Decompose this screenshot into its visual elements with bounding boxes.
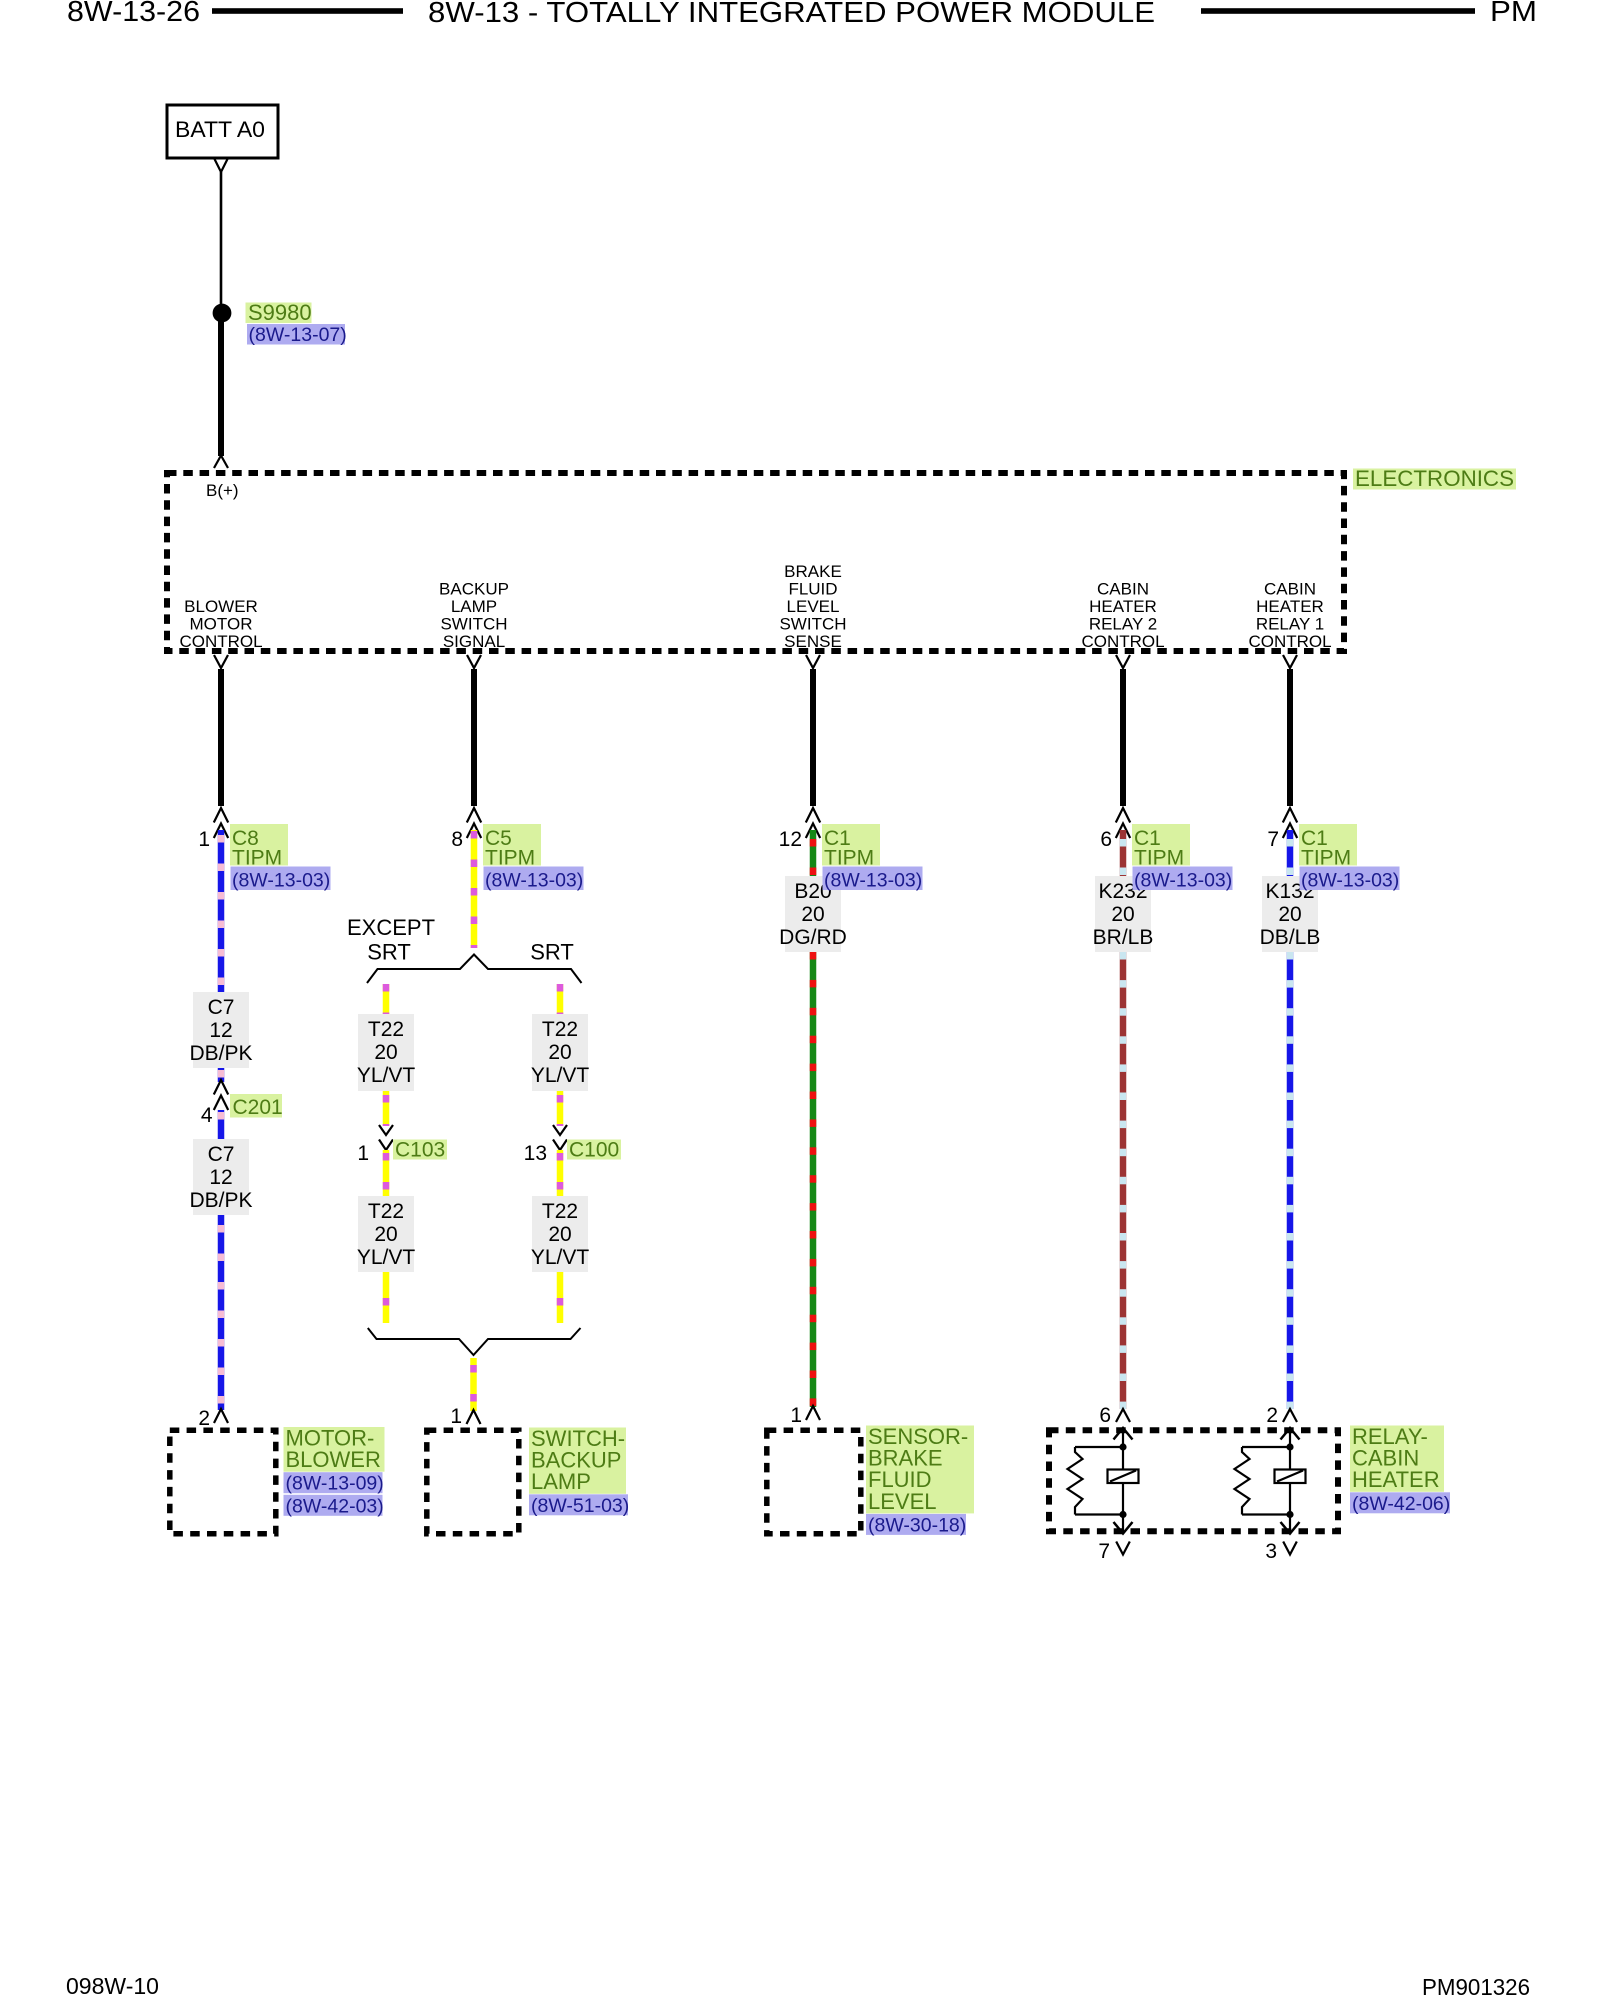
svg-text:(8W-42-03): (8W-42-03) <box>286 1495 384 1517</box>
svg-text:(8W-30-18): (8W-30-18) <box>868 1514 966 1536</box>
svg-text:(8W-13-03): (8W-13-03) <box>824 870 922 892</box>
svg-text:20: 20 <box>801 903 824 926</box>
svg-text:DG/RD: DG/RD <box>779 926 847 949</box>
svg-text:BRAKE: BRAKE <box>784 562 842 581</box>
svg-text:RELAY 2: RELAY 2 <box>1089 615 1157 634</box>
svg-text:(8W-13-03): (8W-13-03) <box>1134 870 1232 892</box>
svg-text:20: 20 <box>548 1041 571 1064</box>
svg-text:8: 8 <box>451 828 463 851</box>
svg-text:13: 13 <box>524 1142 547 1165</box>
svg-text:8W-13 - TOTALLY INTEGRATED POW: 8W-13 - TOTALLY INTEGRATED POWER MODULE <box>428 0 1155 29</box>
svg-text:YL/VT: YL/VT <box>357 1246 416 1269</box>
svg-text:(8W-13-03): (8W-13-03) <box>1301 870 1399 892</box>
svg-text:C201: C201 <box>233 1096 283 1119</box>
svg-text:SENSE: SENSE <box>784 632 842 651</box>
svg-text:3: 3 <box>1265 1540 1277 1563</box>
svg-text:CABIN: CABIN <box>1264 580 1316 599</box>
svg-text:TIPM: TIPM <box>824 847 874 870</box>
svg-text:(8W-51-03): (8W-51-03) <box>531 1495 629 1517</box>
svg-text:DB/PK: DB/PK <box>189 1042 252 1065</box>
svg-text:8W-13-26: 8W-13-26 <box>67 0 200 28</box>
svg-text:YL/VT: YL/VT <box>531 1246 590 1269</box>
svg-text:7: 7 <box>1267 828 1279 851</box>
svg-text:SWITCH: SWITCH <box>440 615 507 634</box>
svg-text:SRT: SRT <box>367 940 411 965</box>
svg-text:2: 2 <box>198 1407 210 1430</box>
svg-text:20: 20 <box>374 1223 397 1246</box>
svg-text:T22: T22 <box>368 1018 404 1041</box>
svg-text:1: 1 <box>357 1142 369 1165</box>
svg-text:12: 12 <box>209 1019 232 1042</box>
svg-text:B(+): B(+) <box>206 481 239 500</box>
svg-text:BLOWER: BLOWER <box>286 1447 381 1472</box>
svg-text:CONTROL: CONTROL <box>1081 632 1164 651</box>
svg-text:SWITCH: SWITCH <box>779 615 846 634</box>
svg-text:1: 1 <box>198 828 210 851</box>
svg-text:DB/PK: DB/PK <box>189 1189 252 1212</box>
svg-text:6: 6 <box>1100 828 1112 851</box>
svg-text:(8W-42-06): (8W-42-06) <box>1352 1493 1450 1515</box>
svg-text:TIPM: TIPM <box>1134 847 1184 870</box>
svg-text:C7: C7 <box>208 1143 235 1166</box>
svg-text:7: 7 <box>1098 1540 1110 1563</box>
svg-text:SIGNAL: SIGNAL <box>443 632 505 651</box>
svg-text:CONTROL: CONTROL <box>179 632 262 651</box>
svg-text:LAMP: LAMP <box>451 597 497 616</box>
svg-text:2: 2 <box>1266 1404 1278 1427</box>
svg-text:BACKUP: BACKUP <box>439 580 509 599</box>
svg-text:20: 20 <box>1278 903 1301 926</box>
svg-text:BATT A0: BATT A0 <box>175 117 265 142</box>
svg-text:SRT: SRT <box>530 940 574 965</box>
svg-text:CABIN: CABIN <box>1097 580 1149 599</box>
svg-text:(8W-13-03): (8W-13-03) <box>485 870 583 892</box>
svg-text:DB/LB: DB/LB <box>1260 926 1321 949</box>
svg-text:(8W-13-09): (8W-13-09) <box>286 1473 384 1495</box>
svg-text:TIPM: TIPM <box>232 847 282 870</box>
svg-text:FLUID: FLUID <box>788 580 837 599</box>
svg-text:HEATER: HEATER <box>1256 597 1324 616</box>
svg-text:12: 12 <box>209 1166 232 1189</box>
svg-text:YL/VT: YL/VT <box>357 1064 416 1087</box>
svg-text:098W-10: 098W-10 <box>66 1973 159 1999</box>
svg-text:C7: C7 <box>208 996 235 1019</box>
svg-text:HEATER: HEATER <box>1089 597 1157 616</box>
svg-text:CONTROL: CONTROL <box>1248 632 1331 651</box>
svg-text:YL/VT: YL/VT <box>531 1064 590 1087</box>
svg-text:T22: T22 <box>542 1200 578 1223</box>
svg-text:20: 20 <box>1111 903 1134 926</box>
svg-text:6: 6 <box>1099 1404 1111 1427</box>
svg-text:1: 1 <box>790 1404 802 1427</box>
svg-text:C103: C103 <box>395 1139 445 1162</box>
svg-text:T22: T22 <box>368 1200 404 1223</box>
svg-text:TIPM: TIPM <box>1301 847 1351 870</box>
svg-text:LAMP: LAMP <box>531 1469 591 1494</box>
svg-text:T22: T22 <box>542 1018 578 1041</box>
svg-text:EXCEPT: EXCEPT <box>347 915 435 940</box>
svg-text:20: 20 <box>374 1041 397 1064</box>
svg-text:HEATER: HEATER <box>1352 1467 1440 1492</box>
svg-text:1: 1 <box>450 1405 462 1428</box>
svg-text:12: 12 <box>779 828 802 851</box>
svg-text:20: 20 <box>548 1223 571 1246</box>
svg-text:LEVEL: LEVEL <box>787 597 840 616</box>
svg-text:(8W-13-07): (8W-13-07) <box>249 324 347 346</box>
svg-text:4: 4 <box>201 1104 213 1127</box>
svg-text:RELAY 1: RELAY 1 <box>1256 615 1324 634</box>
svg-text:C100: C100 <box>569 1139 619 1162</box>
svg-text:BLOWER: BLOWER <box>184 597 258 616</box>
svg-text:LEVEL: LEVEL <box>868 1489 937 1514</box>
svg-text:BR/LB: BR/LB <box>1093 926 1154 949</box>
svg-text:ELECTRONICS: ELECTRONICS <box>1355 466 1514 491</box>
svg-text:(8W-13-03): (8W-13-03) <box>232 870 330 892</box>
svg-text:S9980: S9980 <box>248 300 312 325</box>
svg-text:PM901326: PM901326 <box>1422 1974 1530 2000</box>
svg-text:PM: PM <box>1490 0 1537 28</box>
svg-text:TIPM: TIPM <box>485 847 535 870</box>
svg-text:MOTOR: MOTOR <box>190 615 253 634</box>
